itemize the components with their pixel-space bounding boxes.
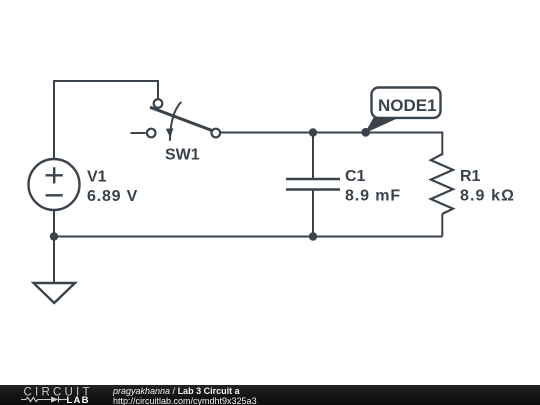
svg-text:C1: C1	[345, 168, 366, 185]
svg-text:V1: V1	[87, 169, 107, 186]
wire ground lead	[53, 237, 55, 284]
junction dot at V1 bottom	[50, 232, 58, 240]
junction dot at NODE1	[361, 128, 370, 137]
CircuitLab logo	[0, 384, 110, 405]
label SW1	[165, 147, 200, 164]
svg-text:SW1: SW1	[165, 147, 200, 164]
svg-text:NODE1: NODE1	[378, 96, 437, 115]
callout box	[372, 88, 441, 118]
capacitor C1	[286, 133, 340, 190]
resistor R1	[431, 154, 453, 214]
svg-text:8.9 mF: 8.9 mF	[345, 188, 401, 205]
switch throw arrow	[166, 102, 181, 141]
ground	[34, 283, 76, 303]
switch top terminal	[154, 99, 163, 108]
wire V1 bottom lead	[53, 211, 55, 237]
label V1 value	[87, 169, 138, 206]
switch blade	[150, 107, 212, 130]
voltage source V1	[29, 159, 80, 210]
svg-text:R1: R1	[460, 168, 481, 185]
label R1 value	[460, 168, 515, 205]
node NODE1 callout	[366, 88, 441, 133]
switch left throw terminal	[147, 129, 156, 138]
wire stub to switch left throw terminal	[131, 132, 146, 134]
switch right terminal	[212, 129, 221, 138]
wire bottom rail	[54, 236, 442, 238]
junction dot at C1 top	[309, 128, 317, 136]
switch SW1	[147, 99, 220, 141]
label C1 value	[345, 168, 401, 205]
wire C1 bottom lead to bottom rail	[312, 190, 314, 237]
logo squiggle resistor + diode	[21, 397, 67, 403]
wire C1 top lead	[312, 133, 314, 179]
footer bar	[0, 385, 540, 405]
footer credit text	[113, 387, 257, 405]
wire from switch right terminal across top to right corner and down to R1	[221, 133, 442, 156]
wire from V1 top up and across to switch top terminal	[54, 81, 158, 159]
svg-text:6.89 V: 6.89 V	[87, 188, 138, 205]
wire R1 bottom lead	[441, 214, 443, 237]
junction dot at C1 bottom	[309, 232, 317, 240]
svg-text:8.9 kΩ: 8.9 kΩ	[460, 188, 515, 205]
svg-text:LAB: LAB	[67, 395, 91, 405]
callout pointer	[366, 117, 399, 132]
